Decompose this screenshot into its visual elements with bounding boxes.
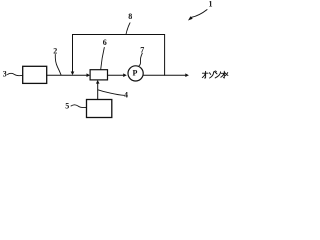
wire box3 to junction to box6 [47, 74, 87, 76]
box 5 ozone generator [87, 100, 112, 118]
text ozone water (オゾン水) drawn as strokes [202, 71, 228, 78]
leader 2 [55, 55, 61, 75]
svg-text:1: 1 [209, 0, 213, 9]
leader 6 [101, 48, 105, 70]
feedback loop wire [73, 35, 165, 76]
wire box5 to box6 [97, 84, 99, 100]
arrowhead outlet [185, 73, 189, 77]
pump P 7 [128, 66, 143, 81]
wire pump to outlet [143, 74, 185, 76]
svg-text:5: 5 [65, 102, 69, 111]
box 3 [23, 66, 47, 83]
arrowhead into box 6 [87, 73, 91, 77]
wire box6 to pump [108, 74, 124, 76]
leader 4 [98, 90, 124, 96]
svg-text:8: 8 [128, 12, 132, 21]
glyph オ [202, 71, 208, 78]
arrowhead into pump [123, 73, 127, 77]
arrowhead into box6 bottom [96, 80, 100, 84]
svg-text:6: 6 [103, 38, 107, 47]
glyph 水 [221, 71, 228, 78]
pointer arrow 1 [191, 10, 207, 18]
svg-text:3: 3 [3, 69, 7, 78]
leader 8 [126, 23, 130, 35]
arrowhead feedback into junction [71, 72, 75, 76]
svg-text:P: P [132, 69, 137, 78]
svg-text:2: 2 [53, 46, 57, 55]
box 6 mixer [90, 70, 107, 80]
leader 3 [8, 73, 23, 75]
leader 7 [139, 53, 143, 66]
svg-text:4: 4 [124, 91, 128, 100]
leader 5 [71, 105, 87, 108]
glyph ゾ [209, 71, 216, 78]
glyph ン [215, 72, 220, 78]
